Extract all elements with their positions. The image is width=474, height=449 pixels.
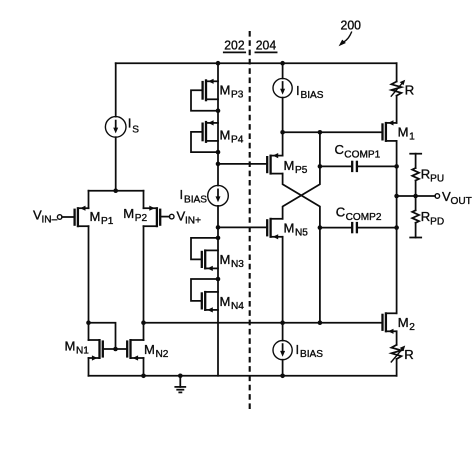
svg-text:R: R [421,166,430,181]
svg-text:I: I [128,115,132,130]
transistor MP1 [62,206,114,228]
node: IBIAS top / node A [280,130,285,135]
label 204 [255,37,276,52]
svg-text:COMP2: COMP2 [346,212,382,223]
node: CCOMP2 branch / second stage line [318,320,323,325]
svg-text:P2: P2 [135,213,148,224]
node: MN1 drain gate tie [86,320,91,325]
terminal VIN+ [169,208,201,226]
wire: MP3/MP4 column [217,63,219,185]
svg-text:C: C [335,142,344,157]
svg-text:M: M [284,221,295,236]
svg-text:COMP1: COMP1 [344,149,380,160]
svg-text:P4: P4 [231,134,244,145]
wire: right column top rail down to R [396,63,398,81]
wire: MP2 source drop [143,191,145,209]
node: CCOMP1 right [394,164,399,169]
wire: mirror gate line [103,348,127,350]
node: node A / CCOMP1 branch [318,130,323,135]
node: MN2 source / rail [141,374,146,379]
svg-text:P1: P1 [101,216,114,227]
wire: MN5 source down to IBIAS bottom [282,237,284,341]
svg-text:BIAS: BIAS [301,90,324,101]
svg-text:IN+: IN+ [185,215,201,226]
transistor MP3 [191,79,244,111]
node: IS / source bar [113,188,118,193]
node: CCOMP1 left [318,164,323,169]
svg-text:204: 204 [256,37,276,52]
variable resistor R top [391,80,414,98]
current source IS [105,115,139,137]
node: VOUT tap on right column [394,194,399,199]
current source IBIAS top [273,78,324,101]
wire: M2 source to R bottom [396,331,398,345]
resistor RPD [410,196,444,238]
node: rail / MP3 column junction [216,61,221,66]
terminal VOUT [435,189,472,207]
svg-text:M: M [220,252,231,267]
svg-text:M: M [65,338,76,353]
svg-text:PD: PD [430,216,444,227]
node: MP5 gate tap [216,162,221,167]
wire: cross couple node A branch to MN5 drain [283,132,320,219]
node: rail / top IBIAS junction [280,61,285,66]
svg-text:M: M [123,206,134,221]
wire: MN5 gate line [218,226,267,228]
node: MN4 gate tie top [216,277,221,282]
wire: bottom ground rail [89,375,397,377]
svg-text:M: M [144,342,155,357]
wire: MP2 drain to MN2 [143,226,145,340]
svg-text:OUT: OUT [451,196,472,207]
wire: MN1 diode tie [89,323,116,349]
wire: second stage line MN2 to M2 gate [144,322,383,324]
terminal VIN- [33,207,62,225]
transistor MN2 [127,339,169,361]
wire: VOUT line [397,195,436,197]
svg-text:N1: N1 [76,345,89,356]
svg-text:M: M [398,125,409,140]
current source IBIAS bottom [273,341,323,361]
wire: node A line to M1 gate [283,131,383,133]
svg-text:I: I [180,187,184,202]
svg-text:P3: P3 [231,90,244,101]
svg-text:N4: N4 [231,301,244,312]
wire: MN2 source [143,358,145,376]
node: CCOMP2 right [394,225,399,230]
svg-text:1: 1 [409,132,415,143]
wire: MN1 source [88,358,90,376]
svg-text:M: M [220,83,231,98]
resistor RPU [410,154,444,196]
node: MP3 gate tie [216,108,221,113]
transistor MN4 [191,279,244,313]
wire: left column bottom (IS to diff pair) [115,137,117,191]
ground [175,376,185,393]
svg-text:M: M [284,158,295,173]
variable resistor R bottom [391,345,414,363]
wire: R top to M1 drain [396,96,398,123]
node: MP4 gate tie [216,150,221,155]
transistor MP5 [267,153,308,176]
svg-text:I: I [296,83,300,98]
wire: top supply rail [116,62,397,64]
node: CCOMP2 left [318,225,323,230]
node: RPU/RPD tap [413,194,418,199]
transistor M1 [383,120,416,142]
node: mirror gate junction [113,347,118,352]
svg-text:BIAS: BIAS [184,194,207,205]
transistor M2 [383,312,416,334]
current source IBIAS middle [180,185,229,206]
node: MN2 drain / second stage line [141,320,146,325]
wire: differential pair source bar [89,190,144,192]
svg-text:M: M [398,315,409,330]
svg-text:2: 2 [409,322,415,333]
label 200 [339,18,361,47]
svg-text:M: M [90,209,101,224]
transistor MP4 [191,120,244,152]
svg-text:IN–: IN– [42,214,58,225]
node: MN3 gate tie top [216,236,221,241]
svg-text:R: R [404,347,413,362]
transistor MP2 [123,206,169,228]
svg-text:M: M [220,294,231,309]
svg-text:N3: N3 [231,259,244,270]
svg-text:N5: N5 [295,228,308,239]
transistor MN5 [267,218,308,240]
node: IBIAS bottom / rail [280,374,285,379]
svg-text:S: S [132,125,139,136]
svg-text:N2: N2 [156,349,169,360]
svg-text:202: 202 [224,37,244,52]
svg-text:PU: PU [430,174,444,185]
node: MN5 source / second stage line [280,320,285,325]
wire: IBIAS bottom to rail [282,360,284,376]
wire: cross couple MP5 drain to CCOMP2 node [283,174,320,323]
node: MN5 gate tap [216,225,221,230]
node: ground tap [178,374,183,379]
svg-text:R: R [405,82,414,97]
svg-text:C: C [336,205,345,220]
transistor MN1 [65,338,103,360]
wire: MP1 source drop [88,191,90,209]
dashed divider line [249,31,251,409]
transistor MN3 [191,238,244,271]
svg-text:R: R [421,209,430,224]
svg-text:M: M [220,127,231,142]
wire: M1 source down to M2 drain [396,141,398,313]
capacitor CCOMP2 [320,205,397,234]
wire: MP5 source up [282,132,284,155]
svg-text:200: 200 [341,18,362,33]
wire: MP1 drain to MN1 [88,226,90,340]
svg-text:I: I [296,342,300,357]
svg-text:BIAS: BIAS [300,349,323,360]
label 202 [224,37,245,52]
capacitor CCOMP1 [320,142,397,172]
wire: left column top [115,63,117,116]
wire: R bottom to rail [396,359,398,376]
wire: IBIAS top column [282,63,284,78]
svg-text:P5: P5 [295,165,308,176]
wire: MP5 gate line [218,163,267,165]
